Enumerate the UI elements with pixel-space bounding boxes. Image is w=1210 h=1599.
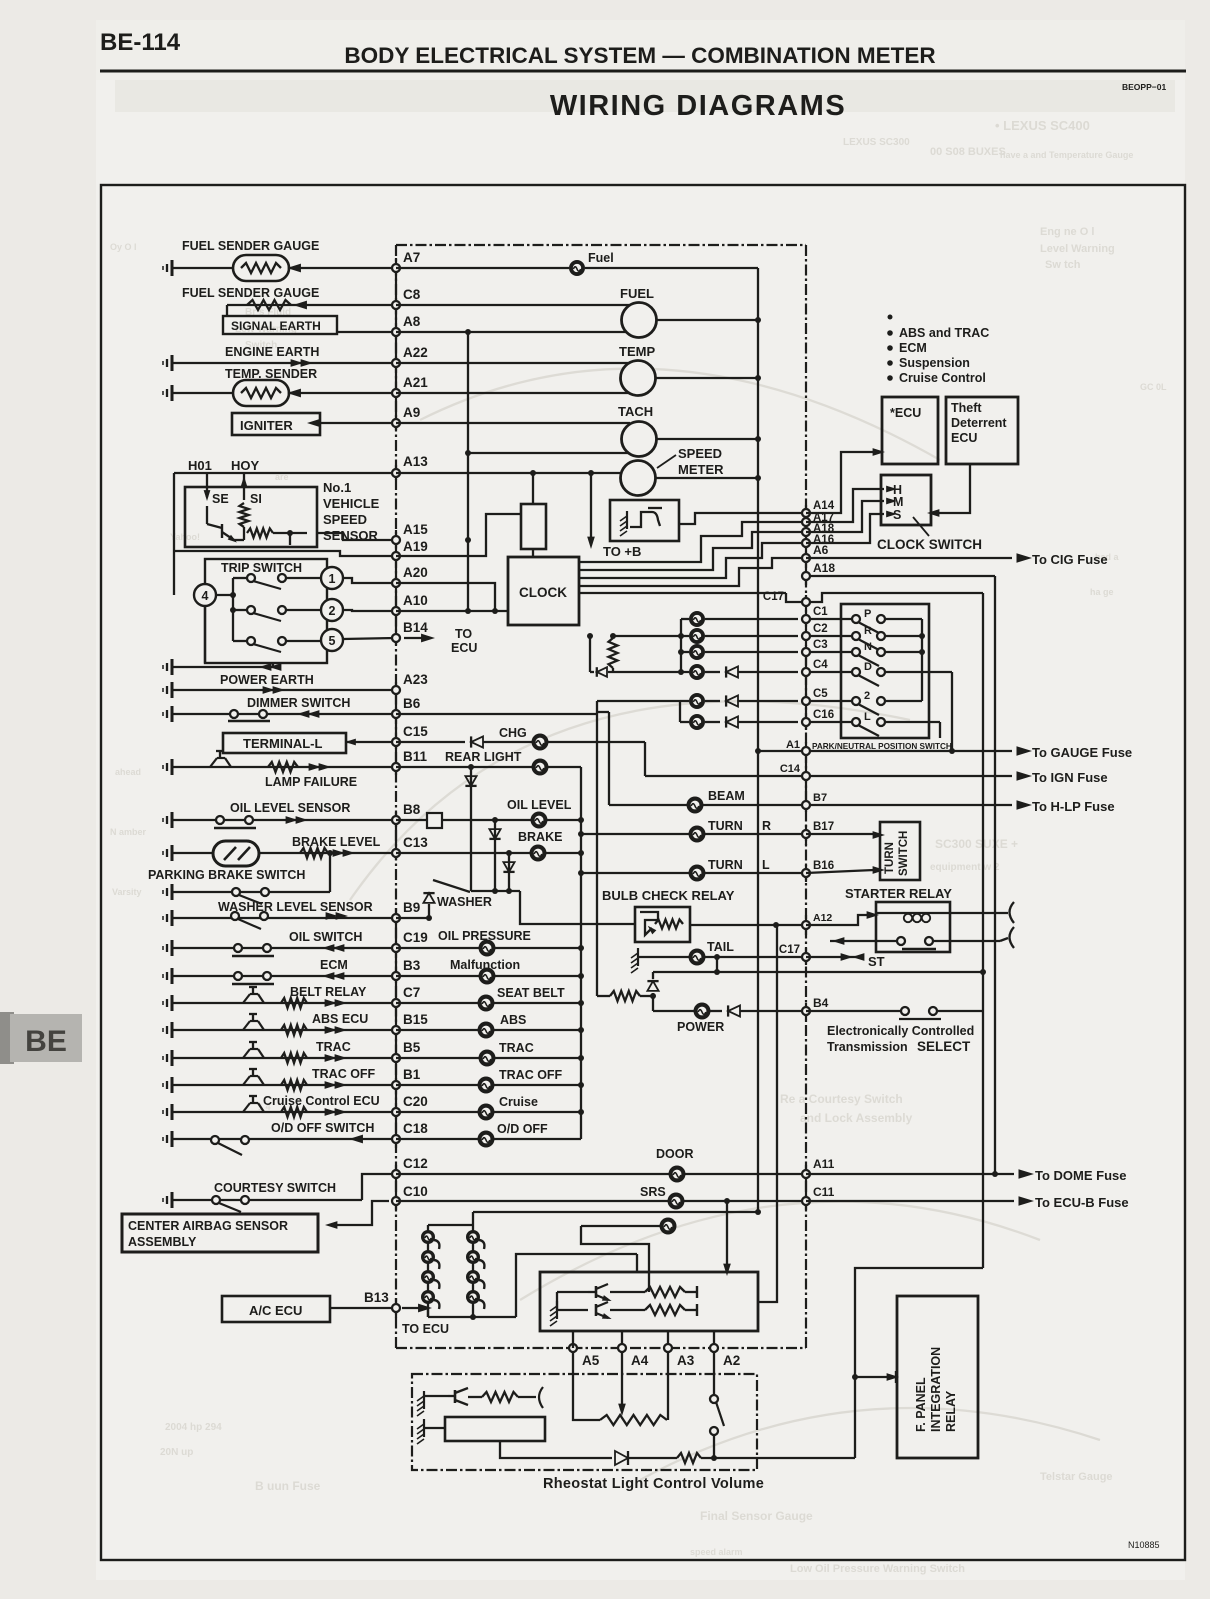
pin C17 (upper) [802,598,810,606]
parking brake switch symbol (oval with slashes) [213,841,259,866]
wire 1 to A20 [343,578,396,583]
wire A16 to S [806,514,884,543]
hatched earth (rheostat lower) [423,1419,425,1437]
grid columns [427,1225,429,1317]
ground (B9 row) [171,910,174,926]
wire clock line 3 to A16 [579,543,806,578]
ground (A21 row) [171,385,174,401]
pin A17 [802,518,810,526]
grid top rail [428,1224,473,1226]
combination meter outline, bottom edge [396,1347,806,1349]
trip contact 5 [233,640,247,642]
ground (B11 row) [171,759,174,775]
lamp P/N C3 [681,651,689,653]
wire A20 row into meter [396,583,495,611]
svg-text:Cruise Control: Cruise Control [899,371,986,385]
rheostat box (dash-dot) [412,1374,757,1470]
wire 2 to A10 [343,610,396,611]
svg-text:O/D OFF: O/D OFF [497,1122,548,1136]
resistor (BELT RELAY) [281,998,307,1008]
svg-text:ASSEMBLY: ASSEMBLY [128,1235,197,1249]
svg-text:DOOR: DOOR [656,1147,694,1161]
wire sensor output to A15 [317,533,396,540]
svg-text:SWITCH: SWITCH [898,831,910,876]
wire A18 to M [806,501,884,532]
svg-text:A13: A13 [403,454,428,469]
svg-text:B4: B4 [813,996,829,1010]
svg-text:ABS and TRAC: ABS and TRAC [899,326,989,340]
svg-text:B1: B1 [403,1067,421,1082]
lamp collector vertical [580,767,582,1139]
terminal circle 2 [321,599,343,621]
courtesy switch contacts [212,1196,220,1204]
resistor (C8 row) [247,300,291,310]
svg-text:C19: C19 [403,930,428,945]
svg-text:C7: C7 [403,985,420,1000]
svg-text:PARK/NEUTRAL POSITION SWITCH: PARK/NEUTRAL POSITION SWITCH [812,742,952,751]
svg-text:S: S [893,508,901,522]
pin C17 (lower) [802,953,810,961]
illumination lamp 8 [466,1290,480,1304]
right connector bus [805,245,807,1348]
svg-text:ECM: ECM [899,341,927,355]
transistor symbol (lamp failure) [210,758,217,767]
washer join rail [471,890,520,892]
ground (C18 row) [171,1131,174,1147]
svg-text:TACH: TACH [618,404,653,419]
box label TERMINAL-L [223,733,346,753]
resistor (driver lower) [610,1309,645,1311]
pin B16 [802,869,810,877]
switch (O/D OFF SWITCH) [211,1136,219,1144]
wire B6 row into meter [396,713,597,715]
No.1 vehicle speed sensor box [185,487,317,547]
svg-text:SELECT: SELECT [917,1039,971,1054]
svg-text:1: 1 [329,572,336,586]
lamp TRAC OFF [478,1077,495,1094]
lamp OIL LEVEL [531,812,548,829]
resistor (brake level) [300,848,328,858]
wire B13 arrow to grid [420,1308,428,1317]
resistor (TRAC OFF) [281,1080,307,1090]
pin A13 [392,469,400,477]
svg-text:B16: B16 [813,860,834,872]
lamp P/N C4 + diode [608,671,689,673]
illumination lamp 4 [421,1290,435,1304]
bullet list ECU systems [888,315,893,320]
svg-text:A10: A10 [403,593,428,608]
svg-text:TRIP SWITCH: TRIP SWITCH [221,561,302,575]
svg-text:PARKING BRAKE SWITCH: PARKING BRAKE SWITCH [148,868,305,882]
relay contacts [830,940,897,942]
gauge FUEL [622,303,657,338]
pin A18 [802,528,810,536]
svg-text:CHG: CHG [499,726,527,740]
hatched earth (driver box) [556,1301,558,1319]
svg-text:ECM: ECM [320,958,348,972]
svg-text:TRAC OFF: TRAC OFF [499,1068,563,1082]
svg-text:GC 0L: GC 0L [1140,382,1167,392]
arrow to CIG fuse [1017,553,1033,563]
wire C12 row [362,1174,396,1200]
svg-text:B7: B7 [813,792,827,804]
wire A8 row [337,331,396,333]
svg-text:REAR LIGHT: REAR LIGHT [445,750,522,764]
svg-text:L: L [864,711,871,723]
svg-text:M: M [893,495,903,509]
pin B17 [802,830,810,838]
rheostat body [445,1417,545,1441]
washer slant contact [433,880,470,892]
svg-text:BRAKE LEVEL: BRAKE LEVEL [292,835,381,849]
wire common vertical (trip switch) [216,594,233,596]
wire B15 row [172,1029,396,1031]
svg-text:C11: C11 [813,1185,835,1199]
wire theft ECU to clock switch S [938,464,970,513]
wire speedometer output [655,477,758,479]
ground (B3 row) [171,968,174,984]
wire A9 into tach gauge [396,422,630,424]
svg-text:20N up: 20N up [160,1447,193,1458]
pin B6 [392,710,400,718]
svg-text:To GAUGE Fuse: To GAUGE Fuse [1032,745,1132,760]
wire C18 row [172,1138,396,1140]
svg-text:2: 2 [329,604,336,618]
arrow B13 into meter [402,1307,420,1309]
transistor Q2 (driver) [595,1304,598,1316]
svg-text:A7: A7 [403,250,420,265]
lamp BRAKE [530,845,547,862]
illumination lamp 2 [421,1250,435,1264]
P/N inner collector [885,618,922,620]
wire B5 row [172,1057,396,1059]
wire TRAC OFF row [396,1084,478,1086]
resistor (driver upper) [608,1283,640,1285]
relay internals [640,912,658,935]
svg-text:BE: BE [25,1025,67,1058]
wire clock feed from A13 row [532,473,534,504]
grid output riser [516,1254,637,1317]
wire C17 line to F-panel riser [806,593,983,602]
pin A9 [392,419,400,427]
transistor symbol (TRAC OFF) [243,1076,250,1085]
pin A5 [569,1344,577,1352]
wire third lamp L-path [581,1226,649,1292]
wire A19 row into meter [396,514,521,556]
wire ABS row [396,1029,478,1031]
wire B11 row to lamp [396,766,532,768]
wire circle4 drop [204,606,206,663]
svg-text:ABS: ABS [500,1013,526,1027]
pin C19 [392,944,400,952]
svg-text:C17: C17 [779,944,800,956]
svg-text:ST: ST [868,954,885,969]
transistor symbol (ABS ECU) [243,1021,250,1030]
lamp P/N C16 + diode [680,721,689,723]
hatched earth (relay box) [626,511,628,529]
svg-text:Transmission: Transmission [827,1040,908,1054]
gauge TEMP [621,361,656,396]
wire A2 drop [713,1352,715,1395]
wire temp gauge output [655,377,758,379]
wire A23 row [172,689,396,691]
svg-text:C14: C14 [780,763,801,775]
wire B9 row extension [396,917,429,919]
wire HOY drop into sensor [243,473,245,500]
wire clock box top [532,549,534,557]
parking brake contacts [232,888,240,896]
illumination lamp 1 [421,1230,435,1244]
svg-text:C5: C5 [813,688,828,700]
svg-text:A21: A21 [403,375,428,390]
wire A18 lower row [806,575,995,577]
svg-text:OIL LEVEL SENSOR: OIL LEVEL SENSOR [230,801,350,815]
wire O/D OFF row [396,1138,478,1140]
svg-text:C17: C17 [763,591,784,603]
svg-text:Final Sensor Gauge: Final Sensor Gauge [700,1509,813,1523]
wire A12 row [690,924,806,926]
resistor (speed sensor, horizontal) [247,529,273,538]
pin C16 [806,721,852,723]
svg-text:A6: A6 [813,543,829,557]
svg-text:VEHICLE: VEHICLE [323,496,380,511]
svg-text:4: 4 [202,589,209,603]
ground (A23 row) [171,682,174,698]
transistor symbol (TRAC) [243,1049,250,1058]
svg-text:P: P [864,608,871,620]
wire sensor internal row [234,539,244,541]
svg-text:TURN: TURN [708,819,743,833]
svg-text:Low Oil Pressure Warning Switc: Low Oil Pressure Warning Switch [790,1563,965,1575]
wire BEAM row [609,804,687,806]
svg-text:R: R [762,819,771,833]
svg-text:C16: C16 [813,709,834,721]
switch (OIL SWITCH) [234,944,242,952]
lamp P/N C2 [613,635,689,637]
terminal circle 1 [321,567,343,589]
pin B9 [392,914,400,922]
P/N contact 2 [852,697,860,705]
P/N contact R [852,632,860,640]
svg-text:SC300 SUXE +: SC300 SUXE + [935,837,1018,851]
wire tach lower input [468,452,629,454]
svg-text:LEXUS SC300: LEXUS SC300 [843,137,910,148]
pin A18 (lower) [802,572,810,580]
svg-text:CLOCK: CLOCK [519,585,567,600]
ground (A7 row) [171,260,174,276]
pin C10 [392,1197,400,1205]
svg-text:Suspension: Suspension [899,356,970,370]
svg-text:have a and Temperature Gauge: have a and Temperature Gauge [1000,150,1133,160]
wire B17 to turn switch [806,833,874,835]
svg-text:TURN: TURN [708,858,743,872]
pin C11 [802,1197,810,1205]
svg-text:A20: A20 [403,565,428,580]
combination meter outline (dash-dot), top edge [396,244,806,246]
wire B6 row [172,713,396,715]
wire OIL PRESSURE row [396,947,479,949]
svg-text:C10: C10 [403,1184,428,1199]
svg-text:Oy O l: Oy O l [110,242,137,252]
wire TO +B drop [590,473,592,538]
svg-text:LAMP FAILURE: LAMP FAILURE [265,775,357,789]
wire A13 into speedometer [396,472,621,474]
gauge collector vertical [757,268,759,1213]
wire grid feed rail [473,1211,758,1213]
wire 5 to B14 [343,638,396,639]
diagram border frame [101,185,1185,1560]
svg-text:ENGINE EARTH: ENGINE EARTH [225,345,319,359]
ground (C19 row) [171,940,174,956]
svg-text:A22: A22 [403,345,428,360]
temp sender (oval resistor) [233,380,289,406]
wire A12 to starter relay [806,915,868,925]
illumination lamp 7 [466,1270,480,1284]
wire A8 into fuel gauge [396,331,630,333]
wire B11 row [172,766,396,768]
pin B14 [392,634,400,642]
svg-text:A1: A1 [786,739,800,751]
box CENTER AIRBAG SENSOR ASSEMBLY [122,1214,318,1252]
resistor (ABS ECU) [281,1025,307,1035]
svg-text:B13: B13 [364,1290,389,1305]
wire A21 into temp gauge [396,392,629,394]
wire A3 drop [667,1352,669,1420]
wire C8 into fuel gauge [396,304,630,306]
wire C13 row [172,852,396,854]
wire A9 row [320,422,396,424]
svg-text:CENTER AIRBAG SENSOR: CENTER AIRBAG SENSOR [128,1219,288,1233]
box A/C ECU [222,1296,330,1322]
wire C17 to ST [806,956,862,958]
wire TRAC row [396,1057,479,1059]
wire fuel lamp to collector [585,267,758,269]
pin B7 [802,801,810,809]
wire clock line 4 to A6 [579,558,806,586]
wire courtesy row [172,1199,362,1201]
illumination lamp 6 [466,1250,480,1264]
svg-text:TO +B: TO +B [603,544,641,559]
wire third lamp row [581,1225,660,1227]
box bulb check relay [635,907,690,942]
svg-text:C20: C20 [403,1094,428,1109]
svg-text:B11: B11 [403,749,428,764]
wire TURN L row [578,870,584,876]
pin A6 [802,554,810,562]
svg-text:A19: A19 [403,539,428,554]
wire fuel lamp row (A7 inside meter) [396,267,569,269]
resistor (bottom line) [677,1453,701,1463]
sensor square (B8 row) [396,819,427,821]
ground (B8 row) [171,812,174,828]
trip contact 2 [233,609,247,611]
svg-text:WASHER LEVEL SENSOR: WASHER LEVEL SENSOR [218,900,373,914]
relay coil [876,912,950,914]
svg-text:Re a Courtesy Switch: Re a Courtesy Switch [780,1092,903,1106]
pin C20 [392,1108,400,1116]
lamp POWER [694,1003,711,1020]
wire A5 drop [572,1330,574,1348]
svg-text:B3: B3 [403,958,421,973]
svg-text:To DOME Fuse: To DOME Fuse [1035,1168,1126,1183]
svg-text:B9: B9 [403,900,420,915]
pin C7 [392,999,400,1007]
svg-text:TURN: TURN [884,842,896,874]
box label SIGNAL EARTH [223,316,337,334]
wire rheostat lower [424,1427,445,1429]
ground (parking brake row) [171,884,174,900]
svg-text:A8: A8 [403,314,421,329]
svg-text:METER: METER [678,462,724,477]
wire B13 row [330,1307,396,1309]
box park/neutral position switch [841,604,929,738]
pin A22 [392,359,400,367]
box clock switch [881,475,931,525]
arrow to IGN fuse [1017,771,1033,781]
washer level contacts [231,912,239,920]
resistor (TRAC) [281,1053,307,1063]
wire driver box bottom taps [572,1330,574,1331]
svg-text:FUEL SENDER GAUGE: FUEL SENDER GAUGE [182,286,319,300]
svg-text:Theft: Theft [951,401,982,415]
pin A3 [664,1344,672,1352]
svg-text:HOY: HOY [231,458,260,473]
svg-text:SRS: SRS [640,1185,666,1199]
riser C5 to dimmer line [597,700,680,702]
svg-text:BODY ELECTRICAL SYSTEM — COMBI: BODY ELECTRICAL SYSTEM — COMBINATION MET… [344,43,935,68]
pin A10 [392,607,400,615]
svg-text:WIRING DIAGRAMS: WIRING DIAGRAMS [550,90,846,122]
svg-text:To ECU-B Fuse: To ECU-B Fuse [1035,1195,1129,1210]
svg-text:A3: A3 [677,1353,695,1368]
svg-text:Cruise: Cruise [499,1095,538,1109]
pin A1 [802,747,810,755]
lamp ABS [478,1022,495,1039]
rheostat potentiometer [600,1415,667,1425]
svg-text:C1: C1 [813,606,828,618]
riser C2 to C4 feed [589,636,591,672]
pin C14 [802,772,810,780]
diode drop (brake) [506,850,512,856]
diode on C4 feed [597,667,607,677]
svg-text:• LEXUS SC400: • LEXUS SC400 [995,118,1090,133]
svg-text:Fuel: Fuel [588,251,614,265]
svg-text:FUEL: FUEL [620,286,654,301]
svg-text:R: R [864,625,872,637]
svg-text:C15: C15 [403,724,428,739]
wire TURN R row [578,831,584,837]
pin C8 [392,301,400,309]
svg-text:B6: B6 [403,696,421,711]
svg-text:Telstar Gauge: Telstar Gauge [1040,1471,1113,1483]
lamp TRAC [479,1050,496,1067]
svg-text:equipment w 2: equipment w 2 [930,862,1000,873]
P/N contact P [852,615,860,623]
arrow to H-LP fuse [1017,800,1033,810]
svg-text:ECU: ECU [451,641,477,655]
svg-text:F. PANEL: F. PANEL [914,1377,928,1432]
wire A17 to H [806,489,884,522]
resistor (rheostat top) [468,1396,482,1398]
svg-text:TEMP: TEMP [619,344,655,359]
arrow to ECU-B fuse [1019,1196,1035,1206]
svg-text:D: D [864,661,872,673]
wire A22 row [172,362,396,364]
lamp TURN L [689,865,706,882]
svg-text:A12: A12 [813,912,832,924]
lamp SRS [668,1193,685,1210]
wire C11 to ECU-B fuse [806,1200,1014,1202]
